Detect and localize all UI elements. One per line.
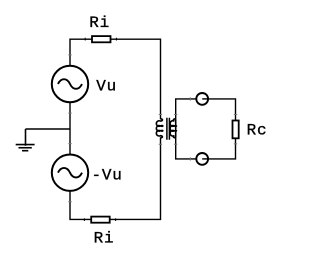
pin ticks (symbol endpoints) bbox=[68, 55, 237, 202]
transformer core bbox=[167, 118, 170, 140]
svg-text:-Vu: -Vu bbox=[92, 167, 123, 185]
ground bbox=[16, 129, 35, 151]
resistor R2 (bottom Ri) bbox=[84, 217, 115, 223]
wire loop top-right: terminal to Rc bbox=[208, 99, 235, 121]
wire between sources (left rail) bbox=[69, 102, 71, 154]
transformer T1 secondary winding bbox=[170, 119, 176, 138]
svg-text:Vu: Vu bbox=[96, 78, 117, 96]
wire loop bottom-right: Rc down to bottom terminal bbox=[208, 138, 235, 159]
wire top-left: from Vu source top up and right to resistor Ri bbox=[70, 39, 92, 66]
transformer T1 primary winding bbox=[156, 119, 163, 138]
wire top-right: from Ri to primary rail, down to transformer bbox=[111, 39, 161, 119]
resistor Rc bbox=[233, 121, 239, 139]
resistor R1 (top Ri) bbox=[85, 36, 116, 42]
wire loop bottom-left: terminal back to secondary bbox=[176, 137, 197, 159]
AC source -Vu bbox=[52, 155, 88, 191]
svg-text:Ri: Ri bbox=[89, 14, 110, 32]
svg-text:Ri: Ri bbox=[94, 230, 115, 248]
wire secondary top: up to loop and right to terminal bbox=[176, 99, 197, 119]
wire bottom-right: from Ri to primary rail, up to transformer bbox=[110, 137, 161, 219]
wire bottom-left: from -Vu down and right to bottom Ri bbox=[70, 191, 91, 220]
terminal node (bottom) bbox=[196, 153, 208, 165]
wire to ground bbox=[26, 128, 71, 130]
AC source Vu bbox=[52, 66, 88, 102]
terminal node (top) bbox=[196, 93, 208, 105]
svg-text:Rc: Rc bbox=[247, 122, 268, 140]
